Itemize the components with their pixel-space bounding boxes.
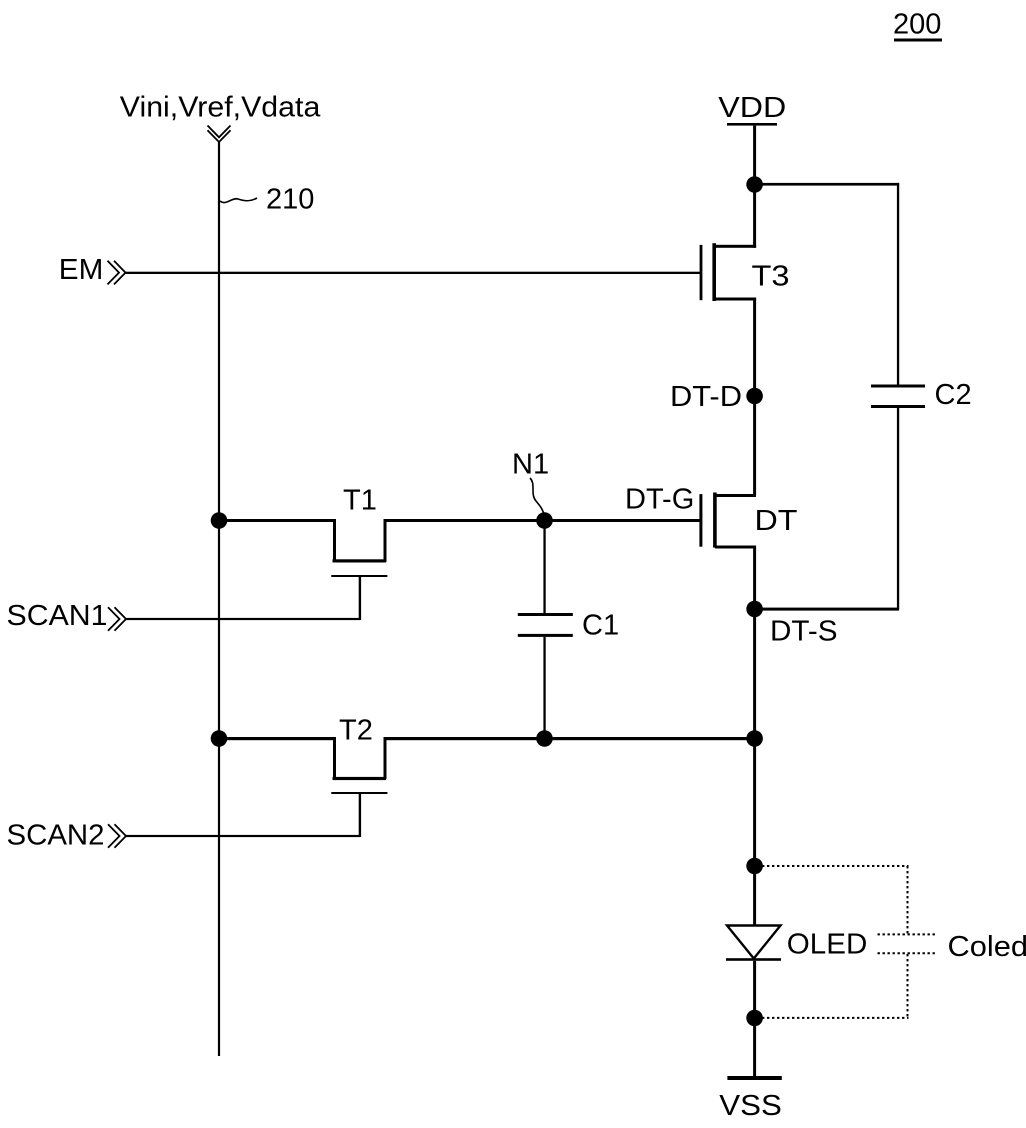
channel bar [333,559,387,562]
gate bar [699,494,702,547]
gate bar (thin) [331,792,387,794]
svg-text:N1: N1 [512,449,549,481]
svg-text:SCAN1: SCAN1 [7,600,108,632]
dotted box for Coled [762,866,935,1018]
capacitor C2 [871,385,925,409]
svg-text:VSS: VSS [719,1090,782,1122]
svg-text:200: 200 [893,9,941,41]
left drop [333,737,336,779]
wire: anode node to diode [753,866,756,926]
svg-text:DT-S: DT-S [770,615,838,647]
node OLED cathode [746,1010,763,1027]
wire: DT-D down to DT [753,396,756,496]
left drop [333,519,336,562]
transistor DT (drive transistor) [699,396,756,608]
wire: DT down to DT-S [753,546,756,609]
wire: main vertical DT-S to OLED [753,609,756,866]
node at data line / T2 [211,730,228,747]
drain connection (top) [715,494,756,497]
svg-text:SCAN2: SCAN2 [7,820,105,852]
channel bar [713,493,717,548]
wire: C2 lower vertical to DT-S row [897,408,899,609]
label 200 (figure number) [893,9,942,42]
channel bar [333,777,387,780]
svg-text:EM: EM [59,254,104,286]
wire: node to T2 [219,737,336,740]
svg-text:VDD: VDD [718,92,786,124]
SCAN1 input chevron [108,607,126,631]
svg-text:C1: C1 [582,610,619,642]
node main vertical [746,730,763,747]
wire: T3 down to DT-D [753,298,756,397]
wire: DT-S to C2 branch [755,608,900,611]
node C1 bottom [536,730,553,747]
wire: N1 down to C1 [543,521,545,614]
source connection (bottom) [714,298,756,301]
right riser [384,519,387,562]
wire: C1 down to bottom row [543,637,545,740]
wire: T2 to main vertical [384,737,755,740]
wire: node to T1 [219,519,336,522]
transistor T1 [219,519,387,620]
wire: SCAN2 to T2 gate [126,835,360,837]
node DT-D [746,388,763,405]
node DT-S [746,601,763,618]
svg-text:DT: DT [755,505,798,537]
EM input chevron [108,261,126,285]
node at data line / T1 [211,512,228,529]
svg-text:DT-G: DT-G [625,484,694,516]
VSS terminal bar [727,1076,781,1080]
svg-text:210: 210 [266,184,314,216]
node N1 junction [536,512,553,529]
wire: cathode node to VSS [753,1018,756,1076]
source connection (bottom) [715,546,756,549]
svg-text:DT-D: DT-D [670,381,742,413]
capacitor C1 [518,521,573,741]
dotted wire: Coled lower vertical [907,954,909,1018]
input arrow (down chevron) on data line [208,126,231,143]
wire: EM to T3 gate [126,272,702,274]
capacitor Coled plates (dotted) [878,933,936,935]
transistor T2 [219,737,755,837]
svg-text:T3: T3 [752,261,790,293]
drain connection (top) [714,245,756,248]
wire: diode to cathode node [753,961,756,1018]
wire: VDD node down to T3 [753,185,756,248]
gate stem [359,792,361,837]
transistor T3 [700,185,757,397]
gate bar (thin) [331,575,387,577]
SCAN2 input chevron [108,824,126,848]
node at VDD branch [746,176,763,193]
dotted wire: cathode to Coled [762,1017,909,1019]
wire: N1 row from T1 to DT gate [384,519,701,522]
dotted wire: Coled upper vertical [907,866,909,934]
squiggle leader for N1 [530,478,544,514]
svg-text:OLED: OLED [787,929,868,961]
node OLED anode [746,858,763,875]
right riser [384,737,387,779]
dotted wire: anode to Coled [762,865,909,867]
svg-text:Vini,Vref,Vdata: Vini,Vref,Vdata [120,92,321,124]
wire: C2 upper vertical [897,183,899,385]
svg-text:T2: T2 [339,715,373,747]
channel bar [712,243,716,301]
VDD terminal bar [727,123,777,126]
svg-text:T1: T1 [343,485,377,517]
wire: vertical data line 210 [218,142,220,1056]
wire: VDD node to C2 top [755,183,900,186]
svg-text:C2: C2 [935,379,972,411]
diode OLED [726,926,781,961]
gate stem [359,575,361,620]
squiggle leader for 210 [220,198,257,203]
svg-text:Coled: Coled [948,931,1026,963]
gate bar [700,245,703,300]
wire: SCAN1 to T1 gate [126,618,360,620]
wire: VDD stem [753,126,756,186]
